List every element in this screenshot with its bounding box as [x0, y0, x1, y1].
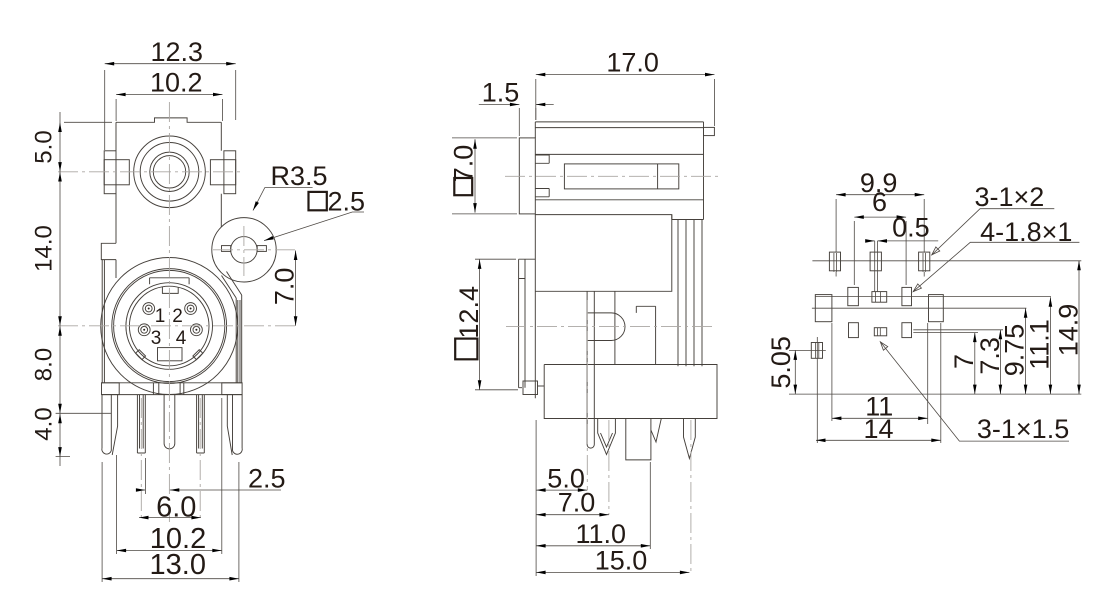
RCA barrel box	[564, 164, 678, 189]
boss horizontal center line	[213, 249, 299, 251]
middle view center lines	[505, 176, 718, 572]
dimension 0.5	[867, 240, 938, 242]
blade pin	[598, 419, 616, 455]
left small pad	[811, 343, 822, 359]
side tab right	[224, 151, 236, 194]
boss to body transition diagonals	[222, 272, 242, 299]
left dimension column line	[56, 112, 112, 466]
dimension 4.0	[58, 414, 62, 424]
svg-text:3-1×1.5: 3-1×1.5	[977, 414, 1069, 444]
row2 pad 3	[902, 287, 912, 305]
corner pad right	[929, 295, 944, 322]
dimension 5.05	[789, 350, 1081, 394]
right rib lines	[672, 215, 704, 367]
dimension 10.2 bottom	[117, 398, 222, 554]
top right tab	[704, 127, 715, 135]
left flat pin	[102, 395, 118, 455]
DIN shield opening	[129, 286, 209, 366]
shield 45deg notch left	[136, 350, 146, 360]
internals below block	[615, 291, 656, 364]
dimension 7 right	[913, 333, 978, 395]
bottom right block	[222, 383, 242, 395]
dimension 9.75	[1025, 308, 1027, 394]
svg-text:3-1×2: 3-1×2	[975, 182, 1045, 212]
body left wall upper	[115, 122, 117, 243]
DIN flange side view	[519, 259, 536, 388]
dimension 1.5	[479, 105, 554, 137]
body top double line	[535, 122, 703, 128]
DIN flange arc	[101, 258, 238, 395]
boss vertical center line	[243, 226, 245, 276]
left view center lines	[58, 102, 299, 522]
thin pin center lines	[141, 398, 200, 518]
DIN horizontal center line	[58, 325, 298, 327]
flange bottom tab	[523, 381, 538, 395]
long pin	[587, 291, 594, 448]
dimension 11.0	[536, 462, 650, 549]
center pin	[164, 395, 175, 449]
RCA flange	[519, 138, 535, 214]
label 3-1x2 leader	[932, 209, 1055, 255]
svg-text:4: 4	[176, 328, 187, 349]
svg-text:7.0: 7.0	[448, 145, 478, 183]
svg-text:8.0: 8.0	[31, 348, 58, 381]
pin 1	[143, 303, 155, 315]
dimension 13.0	[102, 462, 239, 582]
shield top key notch	[162, 287, 178, 293]
dimension 5.0	[58, 123, 62, 133]
svg-text:4.0: 4.0	[31, 407, 58, 440]
dimension 7.0 mid	[536, 514, 609, 516]
ring bottom tabs	[153, 383, 183, 395]
svg-text:4-1.8×1: 4-1.8×1	[980, 217, 1072, 247]
interior line upper	[535, 153, 703, 155]
dimension 14 bottom	[816, 323, 941, 443]
svg-text:17.0: 17.0	[606, 48, 659, 78]
DIN shell top chord	[150, 278, 190, 284]
dimension 14.0	[58, 172, 62, 182]
right flat pin	[227, 395, 242, 455]
RCA horizontal center line	[58, 171, 243, 173]
svg-text:5.05: 5.05	[766, 336, 796, 389]
base left step	[538, 385, 545, 387]
svg-text:2: 2	[172, 306, 183, 327]
dimension 6	[854, 217, 906, 285]
dimension square 7.0	[452, 138, 517, 214]
top pad B	[870, 252, 881, 271]
svg-text:10.2: 10.2	[150, 67, 203, 97]
interior line lower	[535, 199, 703, 201]
corner pad left	[815, 295, 832, 322]
bottom flange lines	[102, 383, 243, 395]
right thin pin	[197, 395, 205, 453]
svg-text:1.5: 1.5	[482, 77, 520, 107]
svg-text:5.0: 5.0	[31, 130, 58, 163]
right pin	[684, 419, 696, 459]
label R3.5 leader	[253, 188, 313, 211]
dimension 8.0	[58, 326, 62, 336]
svg-text:R3.5: R3.5	[271, 161, 328, 191]
R3.5 inner hole	[231, 237, 258, 263]
left protrusion	[101, 243, 116, 259]
DIN shell circles	[112, 269, 227, 384]
body right edge	[703, 122, 705, 220]
dimension 9.9	[836, 195, 924, 252]
top pad A	[829, 252, 840, 271]
middle view dimensions	[448, 48, 714, 577]
vertical center line	[168, 102, 170, 522]
R3.5 hole side slots	[222, 246, 231, 252]
svg-text:1: 1	[155, 306, 166, 327]
board line between corner pads	[812, 296, 1051, 308]
svg-text:12.3: 12.3	[151, 37, 204, 67]
top pad C	[919, 252, 930, 271]
svg-text:11.0: 11.0	[576, 519, 627, 549]
svg-text:6.0: 6.0	[156, 491, 196, 523]
label 4-1.8x1 leader	[913, 242, 1079, 291]
dimension 7.0 boss	[295, 251, 297, 326]
svg-text:3: 3	[151, 328, 162, 349]
svg-text:14.9: 14.9	[1053, 304, 1083, 357]
dimension 11 bottom	[832, 323, 928, 424]
dimension 14.9	[1078, 261, 1080, 394]
left view dimensions	[31, 37, 366, 582]
left thin pin	[137, 395, 145, 453]
dimension 12.3	[105, 64, 236, 150]
top pad row line	[812, 260, 1081, 262]
row3 pad 3	[902, 323, 912, 338]
row3 pad 1	[849, 323, 859, 338]
body right wall upper	[220, 122, 222, 227]
label square 2.5 leader	[264, 212, 364, 241]
svg-text:7.0: 7.0	[269, 268, 299, 306]
pin 3	[138, 324, 150, 336]
svg-text:7.0: 7.0	[558, 488, 596, 518]
shield bottom slot	[158, 348, 183, 361]
dimension square 12.4	[475, 259, 518, 390]
dimension 2.5 bottom	[136, 458, 281, 494]
row2 pad 1	[848, 287, 859, 305]
right wall lower lines	[236, 295, 242, 383]
DIN axis	[506, 325, 712, 327]
svg-text:14: 14	[864, 414, 894, 444]
0.5 slot lines through pads	[834, 241, 926, 336]
R3.5 boss circle	[212, 218, 276, 282]
side tab left	[104, 151, 116, 194]
svg-text:13.0: 13.0	[150, 549, 206, 581]
mounting peg	[626, 419, 662, 460]
body left edge	[534, 122, 536, 398]
pin 4	[191, 324, 203, 336]
label 3-1x1.5 leader	[880, 342, 1069, 441]
barrel end cap	[657, 164, 659, 189]
body top outline with step	[116, 118, 221, 122]
dimension 10.2 top	[116, 95, 222, 122]
pin center lines	[587, 300, 691, 572]
svg-text:11.1: 11.1	[1025, 319, 1055, 370]
pin 2	[185, 303, 197, 315]
dimension 15.0	[536, 571, 689, 573]
svg-text:12.4: 12.4	[454, 286, 484, 339]
dimension 5.0 mid	[536, 420, 587, 576]
svg-text:2.5: 2.5	[328, 187, 366, 217]
dimension 7.3	[913, 330, 1003, 394]
svg-text:6: 6	[872, 187, 887, 217]
dimension 17.0	[536, 75, 715, 126]
row2 small pad	[872, 292, 887, 303]
bottom left block	[102, 383, 120, 395]
base block	[544, 365, 717, 419]
upper block	[535, 215, 672, 292]
dimension 11.1	[1049, 297, 1051, 394]
contact bump	[587, 313, 625, 341]
right view dimensions	[766, 168, 1083, 444]
RCA jack circles	[134, 136, 206, 208]
shield 45deg notch right	[193, 350, 203, 360]
svg-text:2.5: 2.5	[248, 463, 286, 493]
dimension 6.0	[139, 517, 201, 519]
barrel left steps	[535, 155, 549, 197]
RCA axis	[505, 175, 718, 177]
body left wall lower pair	[102, 260, 116, 383]
svg-text:0.5: 0.5	[892, 213, 930, 243]
row3 small pad	[874, 328, 886, 336]
svg-text:15.0: 15.0	[595, 545, 648, 575]
svg-text:14.0: 14.0	[31, 225, 58, 272]
